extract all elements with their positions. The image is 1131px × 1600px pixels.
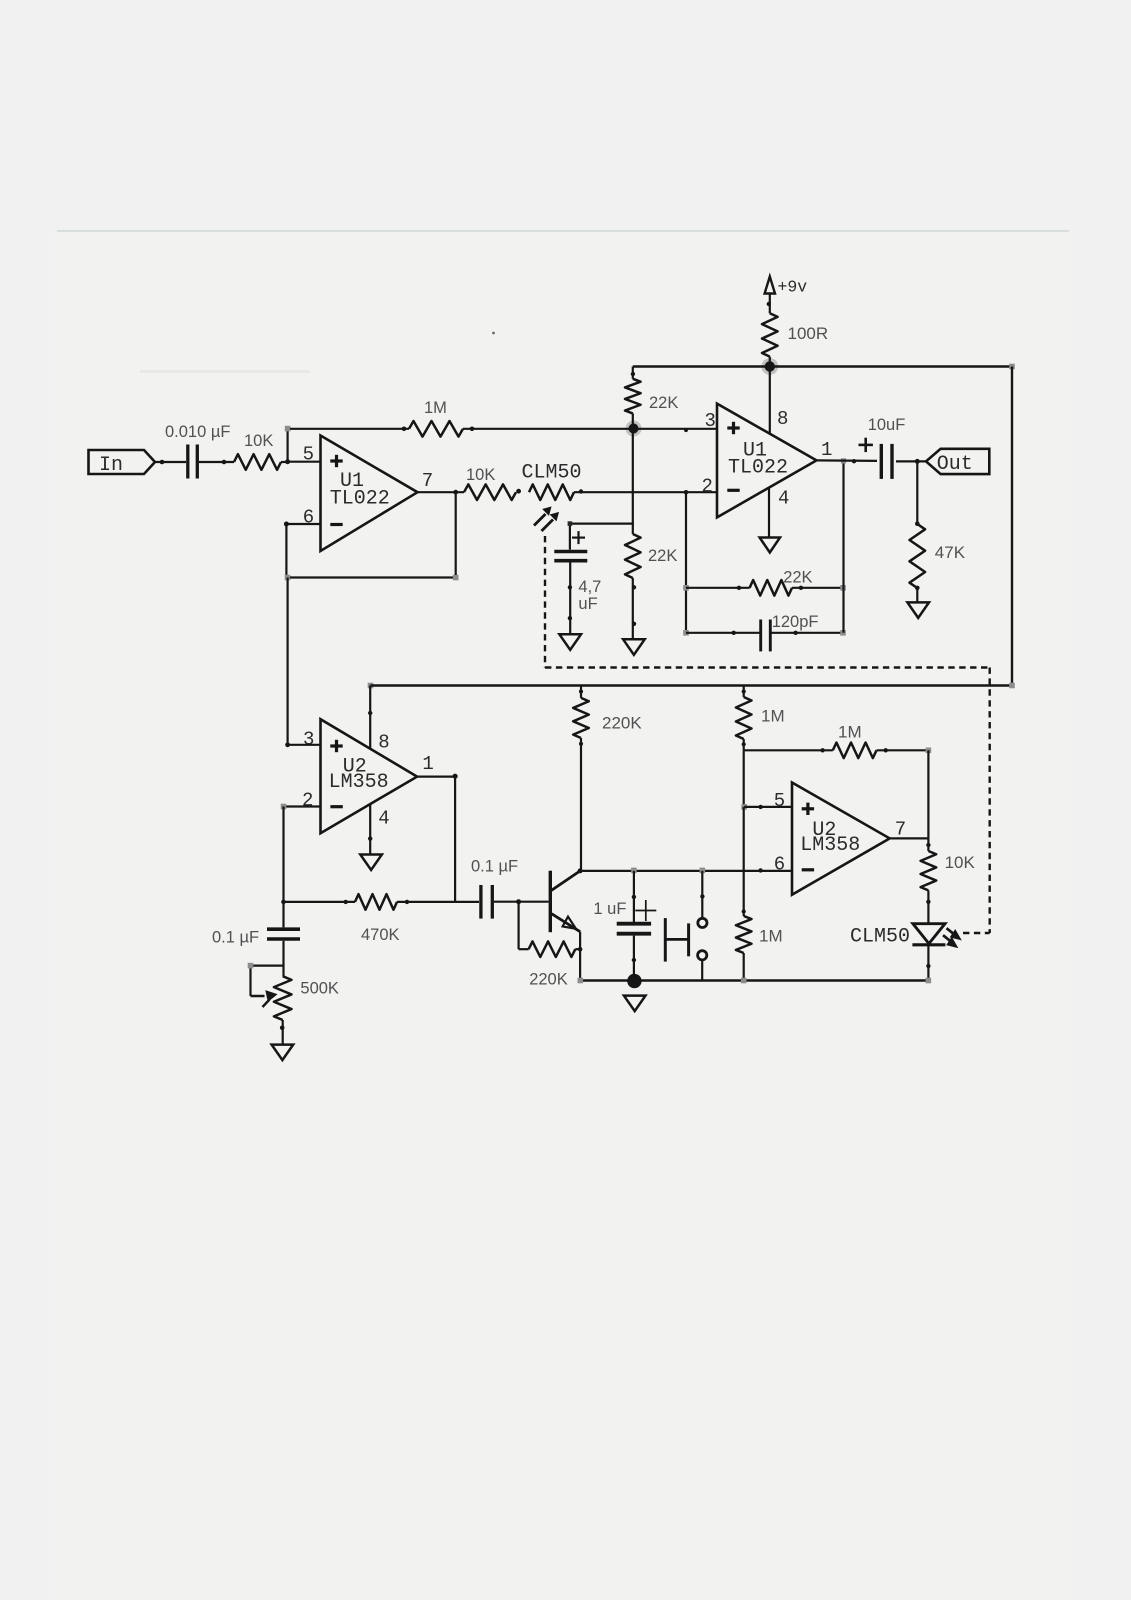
junction R2-LDR — [516, 489, 521, 494]
svg-text:8: 8 — [777, 408, 788, 430]
U2B plus — [802, 803, 814, 815]
wire 470K row left — [281, 900, 355, 905]
wire emitter down — [579, 932, 581, 981]
ground 47K — [907, 602, 929, 618]
U1B minus — [727, 489, 739, 492]
svg-text:1: 1 — [821, 439, 832, 461]
U2A plus — [330, 740, 342, 752]
wire pin2 corner down — [684, 490, 689, 633]
resistor R13 1M — [833, 743, 877, 759]
gray handle pot — [248, 963, 254, 969]
wire pin4 U2A — [368, 805, 372, 855]
wire 10K to LED — [926, 890, 930, 923]
pin 1 U2A — [422, 753, 433, 775]
LED CLM50 triangle — [913, 924, 945, 944]
junction blob vcc — [761, 358, 778, 375]
wire C1 to R1 — [199, 460, 234, 465]
wire bias rail left — [290, 427, 409, 432]
transistor Q1 base bar — [549, 871, 552, 933]
wire rail corner down — [631, 367, 635, 379]
resistor R11 220K — [573, 698, 589, 738]
ground pot — [272, 1045, 294, 1061]
wire C5 down — [282, 941, 284, 976]
gray handle 1uF top — [631, 868, 637, 874]
label U2B name — [800, 819, 860, 857]
wire LDR to pin2 — [574, 489, 717, 493]
svg-text:4: 4 — [378, 808, 389, 830]
U1A minus — [330, 523, 342, 526]
wire pin5 row — [744, 805, 792, 809]
wire pin4 gnd — [768, 488, 770, 538]
wire 22K fb right — [792, 586, 843, 590]
resistor R4 100R — [762, 313, 778, 356]
wire bias rail right — [463, 427, 634, 432]
wire fb2 vertical — [927, 750, 929, 838]
gray handle pin5 — [741, 804, 747, 810]
gray handle fb right — [453, 575, 459, 581]
label C7 1uF — [593, 900, 626, 918]
node pin5 junction — [285, 459, 290, 464]
wire pin6 stub — [284, 522, 321, 527]
wire 9v to 100R — [767, 294, 771, 314]
gray handle sw top — [700, 868, 706, 874]
resistor R1 10K — [234, 454, 281, 470]
wire pin6 down — [285, 524, 287, 578]
label pot 500K — [300, 980, 339, 998]
svg-text:CLM50: CLM50 — [850, 926, 910, 949]
capacitor C1 bars — [188, 445, 198, 479]
svg-text:470K: 470K — [361, 926, 400, 944]
wire C4 to Out — [896, 459, 926, 464]
label CLM50 led — [850, 926, 910, 949]
scan edge line — [57, 231, 1069, 373]
svg-text:1 uF: 1 uF — [593, 900, 626, 918]
svg-text:1M: 1M — [761, 707, 785, 726]
cap C4 plus — [859, 438, 873, 452]
pot 500K body — [274, 976, 292, 1020]
pin 6 U1A — [303, 507, 314, 529]
svg-text:22K: 22K — [648, 547, 677, 565]
label U1A name — [330, 470, 390, 511]
op-amp U2A triangle — [321, 719, 418, 833]
wire fb2 row right — [877, 748, 929, 752]
U1B plus — [727, 422, 739, 434]
wire 470K row right — [397, 900, 479, 904]
svg-text:LM358: LM358 — [329, 771, 389, 794]
gray handle rail2 left — [368, 683, 374, 689]
gray handle fb2 — [926, 748, 932, 754]
wire pin5 drop — [743, 750, 745, 807]
svg-text:120pF: 120pF — [772, 613, 819, 631]
wire 120pF right — [770, 631, 843, 635]
pin 5 U2B — [774, 790, 785, 812]
U2B minus — [802, 868, 814, 871]
cap C6 0.1uF — [481, 885, 492, 919]
svg-text:LM358: LM358 — [800, 834, 860, 857]
label R9 470K — [361, 926, 400, 944]
wire pin3 row — [633, 428, 717, 432]
label C3 120pF — [772, 613, 819, 631]
label R15 10K — [945, 853, 976, 872]
resistor R2 10K — [464, 484, 516, 500]
label C4 10uF — [868, 416, 906, 434]
svg-text:0.1 µF: 0.1 µF — [212, 929, 259, 947]
resistor R6 22K — [625, 534, 641, 578]
pin 7 U2B — [895, 819, 906, 841]
gray handle vcc right — [1009, 364, 1015, 370]
wire vcc rail2 — [371, 684, 1013, 686]
ground bias divider — [623, 639, 645, 655]
gray handle rail2 right — [1009, 683, 1015, 689]
gray handle fbb tl — [683, 585, 689, 591]
svg-text:1M: 1M — [759, 927, 783, 946]
pot 500K wiper — [251, 966, 284, 1007]
wire 4u7 to gnd — [568, 563, 572, 635]
svg-text:47K: 47K — [935, 543, 966, 562]
label R10 220K — [529, 971, 568, 989]
svg-text:TL022: TL022 — [728, 457, 788, 480]
wire 220K pullup down — [579, 738, 583, 871]
gray handle fbb tr — [840, 585, 846, 591]
svg-text:6: 6 — [303, 507, 314, 529]
LDR arrows — [534, 508, 558, 532]
svg-text:Out: Out — [937, 453, 973, 476]
wire bus down to U2A — [287, 578, 289, 745]
resistor R10 220K — [529, 941, 576, 957]
resistor R9 470K — [355, 894, 397, 910]
wire vcc rail — [633, 365, 1012, 367]
wire C6 to base — [494, 899, 549, 904]
wire fb right vertical — [842, 461, 844, 633]
wire U1B out — [817, 459, 878, 463]
wire R1 to node5 — [281, 461, 289, 463]
gray handle pin2 U2A — [281, 804, 287, 810]
svg-text:22K: 22K — [783, 569, 812, 587]
wire pin5 divider down — [743, 807, 745, 916]
wire U2A out down — [454, 777, 456, 902]
label C2 value — [578, 578, 601, 613]
wire LED down — [926, 946, 930, 981]
transistor Q1 emitter — [552, 914, 581, 932]
svg-text:4,7: 4,7 — [578, 578, 601, 596]
resistor R3 1M — [409, 421, 463, 437]
U2A minus — [330, 805, 342, 808]
label R5 22K — [649, 394, 678, 412]
label R12 1M — [761, 707, 785, 726]
resistor R12 1M — [736, 697, 752, 739]
LED cathode bar — [912, 943, 945, 946]
pin 2 U2A — [302, 790, 313, 812]
wire pin7 down — [926, 838, 930, 851]
dashed link bottom — [545, 666, 990, 668]
wire pin8 vcc — [769, 367, 771, 434]
junction ground blob — [627, 974, 641, 988]
wire 220K pullup top — [579, 686, 583, 698]
svg-text:CLM50: CLM50 — [522, 462, 582, 485]
wire ground row — [580, 979, 928, 982]
svg-text:10uF: 10uF — [868, 416, 906, 434]
wire 1M3 to gnd row — [742, 909, 746, 980]
resistor R15 10K — [921, 851, 937, 890]
gray handle fb left — [285, 575, 291, 581]
svg-text:2: 2 — [302, 790, 313, 812]
gray handle rail corner — [285, 426, 291, 432]
wire 1M top — [742, 686, 746, 698]
cap C7 plus — [635, 900, 656, 921]
wire 47K gnd — [915, 586, 920, 603]
op-amp U1B triangle — [717, 404, 817, 518]
wire pin2 row U2A — [284, 805, 321, 807]
svg-text:0.010 µF: 0.010 µF — [165, 423, 230, 441]
wire switch top — [700, 871, 704, 918]
port Out — [926, 449, 989, 476]
label C1 0.010 uF — [165, 423, 230, 441]
power +9v arrow — [765, 277, 808, 297]
wire 220K right up — [575, 947, 582, 952]
wire 120pF left — [686, 631, 761, 635]
wire pin8 U2A — [368, 686, 372, 749]
pin 3 U1B — [705, 410, 716, 432]
wire 4u7 tap — [568, 521, 634, 549]
pin 8 U1B — [777, 408, 788, 430]
pin 4 U1B — [778, 488, 789, 510]
label R1 10K — [244, 432, 273, 450]
junction blob bias — [626, 421, 642, 437]
port In — [89, 450, 156, 477]
label C6 0.1uF — [471, 858, 518, 876]
wire pin7 row — [890, 837, 929, 839]
svg-text:0.1 µF: 0.1 µF — [471, 858, 518, 876]
cap C2 plus — [572, 531, 585, 544]
ground 4u7 — [559, 634, 581, 650]
junction collector — [578, 868, 583, 873]
wire pot gnd — [280, 1020, 285, 1045]
svg-text:5: 5 — [774, 790, 785, 812]
resistor R5 22K — [625, 379, 641, 414]
wire In to C1 — [155, 460, 186, 465]
label R13 1M — [838, 723, 862, 742]
gray handle gnd left — [578, 978, 584, 984]
gray handle out node — [841, 458, 846, 463]
label U1B name — [728, 440, 788, 480]
wire 1uF drop — [632, 871, 636, 924]
label C5 0.1uF — [212, 929, 259, 947]
LDR CLM50 body — [529, 484, 574, 500]
wire collector row — [580, 868, 792, 872]
wire box right edge — [1011, 367, 1013, 686]
wire 100R to rail — [769, 357, 771, 367]
op-amp U2B triangle — [792, 783, 890, 895]
svg-text:1M: 1M — [838, 723, 862, 742]
svg-text:+9v: +9v — [778, 278, 808, 297]
resistor R8 47K — [910, 524, 926, 588]
cap C4 10uF — [881, 444, 892, 479]
wire fb2 row left — [744, 748, 833, 752]
op-amp U1A triangle — [321, 436, 418, 552]
ground U2A — [360, 855, 382, 871]
svg-text:3: 3 — [303, 729, 314, 751]
pin 8 U2A — [378, 732, 389, 754]
wire 1uF down — [632, 936, 636, 981]
svg-text:7: 7 — [422, 470, 433, 492]
svg-text:In: In — [99, 454, 123, 477]
switch S1 actuator — [665, 918, 688, 962]
svg-text:220K: 220K — [602, 714, 642, 733]
label R6 22K — [648, 547, 677, 565]
svg-text:10K: 10K — [466, 466, 495, 484]
svg-text:8: 8 — [378, 732, 389, 754]
label U2A name — [329, 756, 389, 795]
gray handle fbb bl — [683, 630, 689, 636]
pin 3 U2A — [303, 729, 314, 751]
svg-text:10K: 10K — [945, 853, 976, 872]
ground main — [624, 996, 646, 1012]
wire U1A fb vertical — [455, 492, 457, 575]
wire base to 220K — [519, 902, 529, 950]
label R14 1M — [759, 927, 783, 946]
U1A plus — [330, 455, 342, 467]
svg-text:TL022: TL022 — [330, 488, 390, 511]
svg-text:7: 7 — [895, 819, 906, 841]
pin 7 U1A — [422, 470, 433, 492]
wire feedback bottom — [290, 576, 456, 578]
cap C3 120pF — [761, 620, 771, 652]
svg-text:22K: 22K — [649, 394, 678, 412]
svg-text:4: 4 — [778, 488, 789, 510]
label R2 10K — [466, 466, 495, 484]
wire pin2 down — [282, 807, 284, 928]
gray handle fbb br — [840, 630, 846, 636]
pin 2 U1B — [702, 476, 713, 498]
label R7 22K — [783, 569, 812, 587]
svg-text:1: 1 — [422, 753, 433, 775]
svg-text:1M: 1M — [424, 399, 447, 417]
wire node5 up — [287, 429, 289, 462]
label R4 100R — [788, 324, 829, 343]
svg-text:6: 6 — [774, 854, 785, 876]
label CLM50 top — [522, 462, 582, 485]
wire 1M to corner — [742, 739, 746, 750]
cap C2 4.7uF plates — [554, 552, 587, 561]
svg-text:500K: 500K — [300, 980, 339, 998]
wire pin3 row U2A — [285, 742, 320, 747]
dashed link LDR down — [544, 536, 546, 668]
gray handle gnd mid — [741, 978, 747, 984]
ground U1B — [760, 538, 780, 553]
resistor R7 22K — [750, 580, 792, 596]
wire 22K to gnd — [632, 578, 636, 639]
cap C7 1uF plates — [617, 924, 651, 934]
pin 4 U2A — [378, 808, 389, 830]
resistor R14 1M — [736, 916, 752, 953]
svg-text:uF: uF — [578, 595, 597, 613]
wire pin5 stub — [289, 461, 321, 463]
label R8 47K — [935, 543, 966, 562]
svg-text:2: 2 — [702, 476, 713, 498]
svg-text:100R: 100R — [788, 324, 829, 343]
gray handle gnd right — [926, 978, 932, 984]
svg-text:10K: 10K — [244, 432, 273, 450]
wire bias node down — [632, 429, 634, 535]
svg-text:220K: 220K — [529, 971, 568, 989]
switch S1 contacts — [698, 918, 707, 960]
wire switch bottom — [701, 960, 703, 981]
pin 1 U1B — [821, 439, 832, 461]
LED arrows — [943, 928, 960, 947]
wire out down — [915, 461, 920, 526]
label R3 1M — [424, 399, 447, 417]
wire U2A out — [417, 774, 458, 779]
label R11 220K — [602, 714, 642, 733]
pin 5 U1A — [303, 444, 314, 466]
wire 22K fb left — [686, 586, 750, 590]
wire U1A out stub — [418, 490, 465, 495]
cap C5 0.1uF plates — [267, 929, 300, 939]
transistor Q1 collector — [552, 871, 581, 890]
dashed link right vertical — [989, 668, 991, 934]
pin 6 U2B — [774, 854, 785, 876]
wire 22K to blob — [632, 413, 634, 428]
dashed link to LED — [963, 932, 990, 934]
